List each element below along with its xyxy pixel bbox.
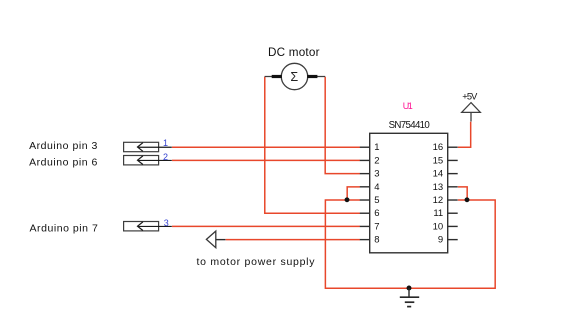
IC U1 body SN754410 bbox=[370, 133, 448, 253]
svg-text:+5V: +5V bbox=[462, 92, 478, 102]
svg-text:11: 11 bbox=[433, 208, 443, 219]
junction node at ground bbox=[407, 286, 412, 291]
svg-text:9: 9 bbox=[438, 235, 443, 246]
svg-text:6: 6 bbox=[374, 208, 379, 219]
svg-text:15: 15 bbox=[433, 155, 444, 166]
junction node at U1 pin 5 bbox=[345, 197, 350, 202]
+5V supply symbol P1 bbox=[462, 103, 481, 122]
svg-text:to motor power supply: to motor power supply bbox=[197, 256, 316, 268]
svg-text:13: 13 bbox=[433, 182, 444, 193]
pin 2 number label (blue) bbox=[163, 152, 168, 162]
svg-text:U1: U1 bbox=[403, 101, 413, 111]
connector JP3 (to Arduino pin 7) bbox=[124, 222, 172, 231]
pin 3 number label (blue) bbox=[164, 218, 169, 228]
wire net VMOT: power-supply arrow to U1 pin 8 bbox=[226, 239, 360, 241]
svg-text:4: 4 bbox=[374, 182, 379, 193]
wire GND net: U1 pin 5 down and along bottom bbox=[325, 200, 495, 288]
svg-text:Arduino pin 6: Arduino pin 6 bbox=[29, 157, 97, 169]
connector JP1 (to Arduino pin 3) bbox=[124, 142, 172, 151]
svg-text:1: 1 bbox=[374, 142, 379, 153]
pin 1 number label (blue) bbox=[163, 138, 168, 148]
U1 pin stubs left (pins 1-8) bbox=[360, 147, 370, 239]
svg-text:8: 8 bbox=[374, 235, 379, 246]
svg-text:14: 14 bbox=[433, 169, 444, 180]
off-page arrow to motor power supply bbox=[206, 231, 225, 248]
U1 pin numbers 1-8 bbox=[374, 142, 379, 245]
wire U1 pin 4 to pin 5 ground jumper bbox=[347, 187, 360, 200]
svg-text:Arduino pin 7: Arduino pin 7 bbox=[30, 223, 98, 235]
motor right terminal pin bbox=[307, 76, 325, 78]
svg-text:DC motor: DC motor bbox=[268, 46, 320, 59]
wire motor left terminal to U1 pin 6 bbox=[265, 77, 360, 214]
svg-text:16: 16 bbox=[433, 142, 444, 153]
wire net N3: connector 3 to U1 pin 7 bbox=[172, 225, 360, 227]
svg-text:3: 3 bbox=[164, 218, 169, 228]
label Arduino pin 3 bbox=[29, 140, 97, 152]
wire net N2: connector 2 to U1 pin 2 bbox=[172, 159, 360, 161]
svg-text:2: 2 bbox=[374, 155, 379, 166]
svg-text:SN754410: SN754410 bbox=[389, 120, 431, 131]
wire U1 pin 16 to +5V bbox=[458, 122, 471, 148]
svg-text:10: 10 bbox=[433, 221, 444, 232]
wire U1 pin 13 to pin 12 ground jumper bbox=[458, 187, 467, 200]
svg-text:12: 12 bbox=[433, 195, 444, 206]
wire net N1: connector 1 to U1 pin 1 bbox=[172, 146, 360, 148]
U1 pin numbers 16-9 bbox=[433, 142, 444, 245]
label DC motor bbox=[268, 46, 320, 59]
U1 value label SN754410 bbox=[389, 120, 431, 131]
svg-text:7: 7 bbox=[374, 221, 379, 232]
label +5V bbox=[462, 92, 478, 102]
junction node at U1 pin 12 bbox=[465, 197, 470, 202]
label Arduino pin 6 bbox=[29, 157, 97, 169]
motor M1 circle symbol bbox=[281, 63, 307, 89]
svg-text:1: 1 bbox=[163, 138, 168, 148]
wire motor right terminal to U1 pin 3 bbox=[325, 77, 360, 174]
ground symbol GND bbox=[400, 288, 419, 307]
svg-text:2: 2 bbox=[163, 152, 168, 162]
svg-text:5: 5 bbox=[374, 195, 379, 206]
motor left terminal pin bbox=[265, 76, 282, 78]
svg-text:Arduino pin 3: Arduino pin 3 bbox=[29, 140, 97, 152]
svg-text:3: 3 bbox=[374, 169, 379, 180]
label Arduino pin 7 bbox=[30, 223, 98, 235]
label to motor power supply bbox=[197, 256, 316, 268]
U1 reference designator label bbox=[403, 101, 413, 111]
svg-text:Σ: Σ bbox=[290, 70, 298, 84]
U1 pin stubs right (pins 16-9) bbox=[448, 147, 458, 239]
connector JP2 (to Arduino pin 6) bbox=[124, 156, 172, 165]
